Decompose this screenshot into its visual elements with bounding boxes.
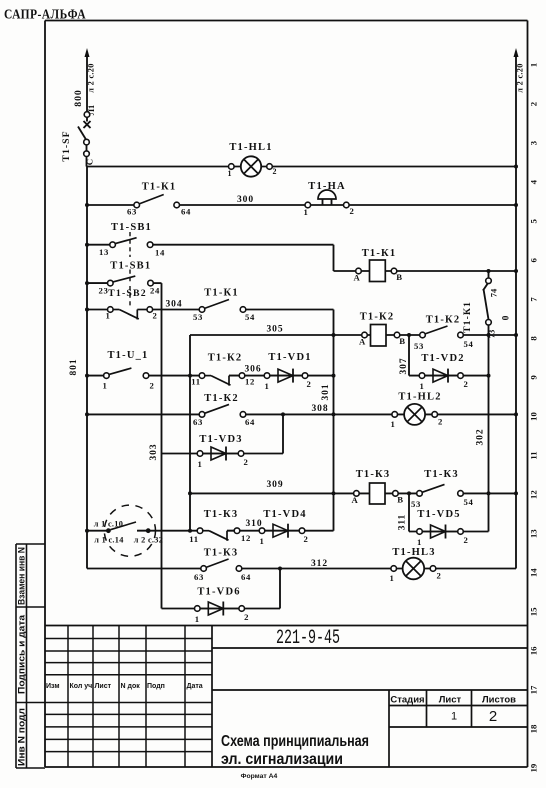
svg-text:64: 64 bbox=[181, 207, 191, 217]
wire row 304 bbox=[87, 309, 334, 311]
junction dots right bus bbox=[514, 165, 518, 496]
svg-text:C: C bbox=[85, 159, 95, 165]
svg-text:Схема принципиальная: Схема принципиальная bbox=[221, 733, 369, 750]
right margin row numbers 1-19 bbox=[529, 63, 539, 773]
svg-text:Т1-HL1: Т1-HL1 bbox=[229, 142, 272, 153]
svg-text:Т1-VD1: Т1-VD1 bbox=[268, 352, 311, 363]
contact T1-K3 63-64 bbox=[194, 559, 251, 582]
svg-text:19: 19 bbox=[529, 763, 539, 772]
svg-text:3: 3 bbox=[529, 140, 539, 145]
svg-text:2: 2 bbox=[273, 167, 277, 176]
svg-text:2: 2 bbox=[529, 101, 539, 106]
svg-text:Лист: Лист bbox=[439, 695, 462, 706]
svg-text:16: 16 bbox=[529, 646, 539, 655]
vertical wire 307 bbox=[408, 335, 410, 376]
contact T1-K3 53-54 bbox=[411, 484, 474, 509]
svg-text:Т1-VD6: Т1-VD6 bbox=[197, 587, 240, 598]
left bus wire (node C) bbox=[86, 167, 88, 569]
svg-text:Инв N подл: Инв N подл bbox=[17, 708, 27, 766]
node L1 terminal bbox=[84, 112, 90, 118]
svg-text:1: 1 bbox=[451, 711, 457, 723]
svg-text:Т1-К1: Т1-К1 bbox=[462, 301, 473, 333]
svg-text:13: 13 bbox=[529, 529, 539, 538]
svg-text:63: 63 bbox=[127, 207, 137, 217]
junction dots bus 301 bbox=[332, 333, 336, 495]
junction dots wire 302 bbox=[487, 269, 491, 495]
svg-text:14: 14 bbox=[155, 248, 165, 258]
svg-text:9: 9 bbox=[529, 375, 539, 380]
svg-text:Формат А4: Формат А4 bbox=[241, 773, 278, 780]
svg-text:Лист: Лист bbox=[95, 683, 112, 690]
wire row 309 bbox=[190, 492, 516, 494]
svg-text:305: 305 bbox=[267, 325, 284, 335]
svg-text:7: 7 bbox=[529, 297, 539, 302]
svg-text:2: 2 bbox=[463, 379, 468, 389]
vertical contact T1-K1 73-74 bbox=[483, 271, 499, 338]
diode T1-VD6 bbox=[195, 602, 250, 625]
svg-text:Т1-VD2: Т1-VD2 bbox=[421, 353, 464, 364]
svg-text:307: 307 bbox=[399, 358, 409, 375]
svg-text:л 1 с.14: л 1 с.14 bbox=[94, 536, 123, 545]
relay coil T1-K2 bbox=[359, 325, 406, 347]
mechanical link dashed line SB1 bbox=[129, 232, 131, 308]
svg-text:310: 310 bbox=[246, 519, 263, 529]
contact T1-U_1 bbox=[102, 368, 154, 390]
left margin stamp boxes bbox=[16, 544, 45, 768]
svg-text:2: 2 bbox=[349, 206, 354, 216]
svg-text:A: A bbox=[352, 495, 359, 505]
svg-text:1: 1 bbox=[228, 169, 232, 178]
svg-text:2: 2 bbox=[152, 311, 157, 321]
diode T1-VD2 bbox=[419, 369, 468, 391]
svg-text:Подпись и дата: Подпись и дата bbox=[17, 615, 27, 694]
svg-text:308: 308 bbox=[312, 404, 329, 414]
wire row 23-24 bbox=[87, 282, 162, 284]
wire row SB1 13-14 bbox=[87, 244, 334, 246]
svg-text:11: 11 bbox=[191, 377, 201, 387]
wire row K1 coil bbox=[334, 270, 517, 272]
contact T1-K2 53-54 bbox=[414, 326, 474, 351]
svg-text:Стадия: Стадия bbox=[390, 695, 424, 706]
svg-text:53: 53 bbox=[411, 499, 421, 509]
svg-text:24: 24 bbox=[150, 286, 160, 296]
svg-text:54: 54 bbox=[463, 497, 473, 507]
svg-text:6: 6 bbox=[529, 258, 539, 263]
wire row HL1 bbox=[87, 166, 516, 168]
svg-text:Т1-HL2: Т1-HL2 bbox=[398, 392, 441, 403]
revision table grid bbox=[16, 626, 212, 768]
svg-text:Т1-К2: Т1-К2 bbox=[208, 353, 243, 364]
svg-text:53: 53 bbox=[193, 312, 203, 322]
pushbutton contact 23-24 bbox=[98, 276, 160, 295]
svg-text:53: 53 bbox=[414, 341, 424, 351]
svg-text:10: 10 bbox=[529, 412, 539, 421]
svg-text:л 2 с.20: л 2 с.20 bbox=[87, 63, 96, 92]
contact T1-K1 63-64 bbox=[127, 195, 191, 217]
svg-text:1: 1 bbox=[529, 63, 539, 67]
svg-text:Т1-К2: Т1-К2 bbox=[204, 393, 239, 404]
vertical bus wire 303 region x161 bbox=[161, 283, 163, 608]
title block bbox=[45, 626, 528, 768]
svg-text:17: 17 bbox=[529, 685, 539, 694]
svg-text:Т1-SB1: Т1-SB1 bbox=[110, 261, 151, 272]
annunciator T1-HA bbox=[303, 190, 354, 217]
svg-text:311: 311 bbox=[398, 514, 408, 530]
svg-text:1: 1 bbox=[264, 381, 269, 391]
junction dots wire 307/311 bbox=[407, 333, 411, 495]
svg-text:Т1-К2: Т1-К2 bbox=[360, 312, 395, 323]
svg-text:1: 1 bbox=[419, 381, 424, 391]
wire row VD3 bbox=[162, 453, 284, 455]
vertical wire VD6 branch bbox=[279, 569, 281, 609]
svg-text:2: 2 bbox=[306, 379, 311, 389]
wire row 305 K2 coil bbox=[190, 334, 516, 336]
svg-text:1: 1 bbox=[389, 573, 394, 583]
svg-text:1: 1 bbox=[390, 419, 395, 429]
svg-text:Т1-К3: Т1-К3 bbox=[204, 548, 239, 559]
svg-text:15: 15 bbox=[529, 607, 539, 616]
svg-text:A: A bbox=[354, 273, 361, 283]
svg-text:64: 64 bbox=[241, 572, 251, 582]
vertical corner wire rows 13-14 to K1 coil bbox=[333, 245, 335, 271]
svg-text:23: 23 bbox=[98, 286, 108, 296]
vertical wire VD3 branch bbox=[282, 414, 284, 453]
svg-text:304: 304 bbox=[166, 300, 183, 310]
relay coil T1-K1 bbox=[354, 260, 403, 283]
svg-text:2: 2 bbox=[149, 381, 154, 391]
break contact T1-K2 11-12 bbox=[191, 373, 255, 387]
svg-text:САПР-АЛЬФА: САПР-АЛЬФА bbox=[4, 7, 86, 22]
svg-text:312: 312 bbox=[311, 559, 328, 569]
svg-text:74: 74 bbox=[489, 288, 499, 297]
svg-text:221-9-45: 221-9-45 bbox=[276, 627, 340, 650]
wire row VD6 bbox=[162, 608, 281, 610]
wire row 312 bbox=[87, 568, 516, 570]
svg-text:63: 63 bbox=[194, 572, 204, 582]
diode T1-VD3 bbox=[197, 447, 248, 470]
svg-text:1: 1 bbox=[303, 207, 308, 217]
svg-text:Т1-К1: Т1-К1 bbox=[142, 182, 177, 193]
svg-text:18: 18 bbox=[529, 724, 539, 733]
vertical wire 311 bbox=[408, 493, 410, 531]
svg-text:1: 1 bbox=[105, 311, 110, 321]
vertical wire 302 x488 bbox=[488, 325, 490, 532]
diode T1-VD1 bbox=[264, 369, 311, 391]
wire row 300 bbox=[87, 204, 516, 206]
svg-text:Т1-SB2: Т1-SB2 bbox=[108, 288, 147, 299]
svg-text:B: B bbox=[399, 336, 406, 346]
svg-text:Т1-VD3: Т1-VD3 bbox=[199, 434, 242, 445]
svg-text:Т1-К3: Т1-К3 bbox=[424, 469, 459, 480]
lamp T1-HL3 bbox=[389, 558, 441, 583]
svg-text:Т1-К3: Т1-К3 bbox=[204, 509, 239, 520]
svg-text:Т1-НА: Т1-НА bbox=[308, 181, 346, 192]
svg-text:Т1-К3: Т1-К3 bbox=[356, 469, 391, 480]
svg-text:2: 2 bbox=[436, 571, 441, 581]
svg-text:12: 12 bbox=[529, 490, 539, 499]
svg-text:Т1-VD4: Т1-VD4 bbox=[263, 509, 306, 520]
vertical bus wire 301 x333 bbox=[333, 310, 335, 531]
svg-text:2: 2 bbox=[489, 708, 497, 725]
junction dots VD3 VD6 branches bbox=[278, 412, 285, 570]
svg-text:Листов: Листов bbox=[482, 695, 516, 706]
svg-text:Т1-К2: Т1-К2 bbox=[426, 315, 461, 326]
svg-text:302: 302 bbox=[476, 429, 486, 446]
contact T1-K2 63-64 bbox=[193, 404, 255, 427]
svg-text:301: 301 bbox=[321, 384, 331, 401]
svg-text:1: 1 bbox=[195, 614, 200, 624]
lamp T1-HL1 bbox=[228, 156, 277, 178]
switch T1-SF bbox=[78, 117, 91, 166]
junction dots bus x190 bbox=[188, 374, 192, 533]
svg-text:8: 8 bbox=[529, 336, 539, 341]
stadia list listov header bbox=[390, 695, 516, 706]
svg-text:B: B bbox=[396, 272, 403, 282]
svg-text:Т1-VD5: Т1-VD5 bbox=[417, 509, 460, 520]
revision table header bbox=[46, 683, 203, 690]
document title bbox=[221, 733, 369, 768]
svg-text:12: 12 bbox=[245, 377, 255, 387]
wire row VD2 bbox=[409, 375, 489, 377]
svg-text:Дата: Дата bbox=[187, 683, 203, 690]
svg-text:N док: N док bbox=[121, 683, 141, 690]
svg-text:54: 54 bbox=[463, 339, 473, 349]
svg-text:800: 800 bbox=[73, 89, 84, 106]
svg-text:1: 1 bbox=[197, 459, 202, 469]
svg-text:B: B bbox=[397, 495, 404, 505]
svg-text:306: 306 bbox=[245, 365, 262, 375]
wire 800 incoming feeder (to sheet 2 p.20) bbox=[85, 48, 90, 115]
wire row VD5 bbox=[409, 531, 489, 533]
svg-text:Т1-U_1: Т1-U_1 bbox=[107, 350, 148, 361]
svg-text:Т1-SB1: Т1-SB1 bbox=[111, 222, 152, 233]
lamp T1-HL2 bbox=[390, 404, 443, 429]
svg-text:2: 2 bbox=[243, 457, 248, 467]
right bus wire (to sheet 2 p.20) bbox=[514, 48, 519, 569]
svg-text:Взамен инв N: Взамен инв N bbox=[17, 547, 27, 605]
svg-text:300: 300 bbox=[237, 195, 254, 205]
svg-text:л 2 с.20: л 2 с.20 bbox=[516, 63, 525, 92]
svg-text:4: 4 bbox=[529, 179, 539, 184]
svg-text:14: 14 bbox=[529, 568, 539, 577]
svg-text:303: 303 bbox=[149, 444, 159, 461]
svg-text:Т1-SF: Т1-SF bbox=[61, 130, 72, 161]
wire row 308 bbox=[87, 413, 516, 415]
svg-text:Т1-К1: Т1-К1 bbox=[362, 248, 397, 259]
svg-text:2: 2 bbox=[438, 417, 443, 427]
svg-text:1: 1 bbox=[259, 536, 264, 546]
svg-text:A: A bbox=[359, 337, 366, 347]
break contact T1-K3 11-12 bbox=[189, 528, 251, 544]
svg-text:л 1 с.10: л 1 с.10 bbox=[94, 520, 123, 529]
contact T1-K1 53-54 bbox=[193, 300, 255, 323]
svg-text:13: 13 bbox=[99, 247, 109, 257]
wire row 801/306 bbox=[87, 375, 334, 377]
svg-text:2: 2 bbox=[303, 534, 308, 544]
svg-text:Подп: Подп bbox=[147, 683, 165, 690]
svg-text:Т1-HL3: Т1-HL3 bbox=[392, 547, 435, 558]
remote contact group dashed circle bbox=[104, 505, 155, 556]
junction dots left bus bbox=[85, 203, 89, 533]
svg-text:64: 64 bbox=[245, 417, 255, 427]
svg-text:5: 5 bbox=[529, 218, 539, 223]
svg-text:309: 309 bbox=[267, 480, 284, 490]
svg-text:Т1-К1: Т1-К1 bbox=[204, 288, 239, 299]
svg-text:11: 11 bbox=[529, 451, 539, 459]
svg-text:63: 63 bbox=[193, 417, 203, 427]
svg-text:0: 0 bbox=[502, 315, 512, 320]
svg-text:Кол уч: Кол уч bbox=[70, 683, 93, 690]
diode T1-VD5 bbox=[417, 525, 469, 548]
svg-text:54: 54 bbox=[245, 312, 255, 322]
svg-text:Изм: Изм bbox=[46, 683, 60, 690]
svg-text:эл. сигнализации: эл. сигнализации bbox=[221, 751, 343, 768]
vertical bus wire x190 bbox=[189, 335, 191, 531]
svg-text:801: 801 bbox=[69, 359, 79, 376]
relay coil T1-K3 bbox=[352, 483, 404, 505]
svg-text:2: 2 bbox=[463, 535, 468, 545]
svg-text:1: 1 bbox=[102, 381, 107, 391]
svg-text:Л1: Л1 bbox=[86, 105, 96, 116]
svg-text:11: 11 bbox=[189, 534, 199, 544]
svg-text:12: 12 bbox=[241, 533, 251, 543]
break contact SB 1-2 bbox=[105, 307, 157, 321]
diode T1-VD4 bbox=[259, 524, 308, 546]
svg-text:1: 1 bbox=[417, 537, 422, 547]
svg-text:2: 2 bbox=[244, 612, 249, 622]
wire row 310 bbox=[87, 530, 334, 532]
pushbutton T1-SB1 contact 13-14 bbox=[99, 238, 165, 258]
svg-text:л 2 с.32: л 2 с.32 bbox=[134, 536, 163, 545]
